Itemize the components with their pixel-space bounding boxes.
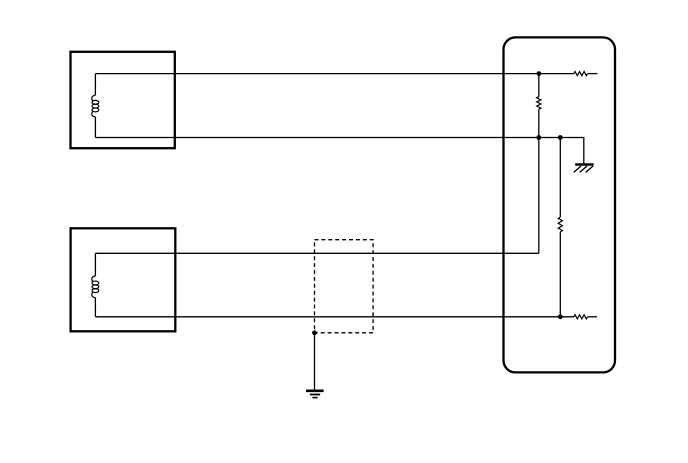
earth ground bottom bar	[312, 397, 317, 399]
shield (dashed box)	[315, 240, 374, 333]
inductor L1 coil loops	[92, 100, 99, 104]
wire: line 3 (box2 top to vertical riser)	[96, 252, 539, 254]
shield ground node dot	[312, 330, 317, 335]
chassis ground hatch slashes	[574, 166, 593, 172]
inductor L2 coil loops	[92, 281, 99, 285]
earth ground top bar	[306, 389, 324, 392]
resistor R3 (vertical, between node B2 and node D)	[558, 217, 562, 232]
wire: line 1 (box1 top to node A)	[96, 73, 574, 75]
wire: vertical segment node A to R2	[538, 74, 540, 97]
inductor L1 lead wires	[94, 74, 96, 138]
node A junction dot	[537, 71, 542, 76]
node B2 junction dot	[558, 135, 563, 140]
wire: line 4 (box2 bottom to node D)	[96, 316, 574, 318]
node B junction dot	[536, 135, 541, 140]
wire: shield to earth ground	[314, 333, 316, 390]
wire: line 4 stub after R4	[588, 316, 597, 318]
amplifier block (right rounded rectangle)	[504, 37, 616, 372]
wire: vertical segment node B2 to R3	[559, 138, 561, 218]
inductor L1 entry hook	[92, 95, 96, 101]
inductor L2 lead wires	[94, 253, 96, 316]
transducer box 1 (top-left thick square)	[71, 52, 175, 148]
resistor R4 (horizontal, on line 4)	[574, 315, 588, 319]
wire: line 1 stub after R1	[588, 73, 598, 75]
resistor R1 (horizontal, on line 1)	[574, 72, 588, 76]
resistor R2 (vertical, between node A and node B)	[537, 97, 541, 109]
wire: vertical segment R3 to node D	[559, 232, 561, 317]
transducer box 2 (bottom-left thick square)	[71, 228, 176, 331]
inductor L2 entry hook	[92, 276, 96, 282]
chassis ground bar	[575, 163, 594, 166]
inductor L1 exit hook	[92, 111, 96, 117]
wire: line 2 (box1 bottom to chassis ground)	[96, 138, 584, 164]
wire: vertical segment R2 down through node B to line 3	[538, 109, 540, 253]
earth ground middle bar	[310, 394, 320, 396]
inductor L2 exit hook	[92, 292, 96, 298]
node D junction dot	[558, 314, 563, 319]
